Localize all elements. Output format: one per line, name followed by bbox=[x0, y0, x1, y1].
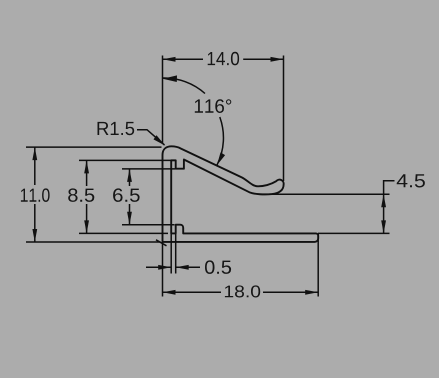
arrowhead 18.0 left bbox=[163, 290, 176, 295]
dim 0.5 left arrow tail bbox=[146, 266, 171, 268]
arrowhead 18.0 right bbox=[305, 290, 318, 295]
dim 0.5 left extension line bbox=[170, 234, 172, 274]
arrowhead 0.5 right bbox=[176, 265, 189, 270]
dim 18.0 line right segment bbox=[263, 291, 318, 293]
dim 18.0 line left segment bbox=[163, 291, 222, 293]
dimension text 14.0 bbox=[208, 52, 239, 66]
dim 14.0 right extension line bbox=[283, 56, 285, 182]
dim 6.5 top extension line bbox=[122, 168, 175, 170]
dim 6.5 line lower segment bbox=[129, 204, 131, 225]
arrowhead 4.5 bottom bbox=[381, 220, 386, 233]
dim 8.5 line lower segment bbox=[86, 204, 88, 233]
dim 18.0 left extension line bbox=[162, 242, 164, 297]
break tick at flange corner bbox=[156, 240, 167, 246]
arrowhead 14.0 right bbox=[271, 57, 284, 62]
dim 8.5 bottom extension line bbox=[79, 232, 168, 234]
dim 8.5 top extension line bbox=[79, 159, 176, 161]
dimension text 0.5 bbox=[205, 260, 231, 274]
dim 11.0 line upper segment bbox=[34, 147, 36, 185]
leader line R1.5 bbox=[137, 130, 165, 145]
arrowhead 6.5 top bbox=[127, 169, 132, 182]
dimension text 11.0 bbox=[21, 188, 50, 202]
dim 14.0 left extension line bbox=[162, 56, 164, 144]
dim 0.5 right extension line bbox=[175, 234, 177, 274]
arrowhead 4.5 top bbox=[381, 194, 386, 207]
angle 116 arc lower segment bbox=[217, 117, 223, 165]
dim 8.5 line upper segment bbox=[86, 160, 88, 186]
extrusion profile cross-section outline bbox=[163, 146, 319, 242]
arrowhead 8.5 bottom bbox=[84, 220, 89, 233]
dimension text 8.5 bbox=[68, 188, 94, 202]
angle 116 arc upper segment bbox=[163, 78, 206, 94]
arrowhead 14.0 left bbox=[163, 57, 176, 62]
dim 11.0 top extension line bbox=[26, 146, 162, 148]
dim 4.5 top extension line bbox=[269, 193, 390, 195]
arrowhead 0.5 left bbox=[158, 265, 171, 270]
dim 6.5 line upper segment bbox=[129, 169, 131, 186]
dim 4.5 bottom extension line bbox=[318, 232, 390, 234]
dim 0.5 right arrow tail bbox=[176, 266, 200, 268]
arrowhead 11.0 top bbox=[32, 147, 37, 160]
arrowhead 6.5 bottom bbox=[127, 212, 132, 225]
dimension text 18.0 bbox=[225, 285, 260, 297]
dimension text R1.5 bbox=[98, 122, 135, 135]
dim 14.0 line left segment bbox=[163, 58, 204, 60]
dim 18.0 right extension line bbox=[317, 234, 319, 297]
dimension text 4.5 bbox=[397, 174, 425, 187]
dimension text 116 degrees bbox=[195, 99, 232, 113]
dim 4.5 line and leader to text bbox=[384, 181, 395, 234]
dimension text 6.5 bbox=[113, 188, 140, 202]
dim 6.5 bottom extension line bbox=[122, 224, 175, 226]
arrowhead R1.5 leader bbox=[154, 135, 166, 145]
arrowhead 8.5 top bbox=[84, 160, 89, 173]
dim 14.0 line right segment bbox=[243, 58, 283, 60]
dim 11.0 bottom extension line bbox=[26, 241, 161, 243]
dim 11.0 line lower segment bbox=[34, 204, 36, 242]
arrowhead 116 bottom bbox=[217, 152, 225, 165]
arrowhead 11.0 bottom bbox=[32, 229, 37, 242]
arrowhead 116 top bbox=[163, 75, 177, 82]
